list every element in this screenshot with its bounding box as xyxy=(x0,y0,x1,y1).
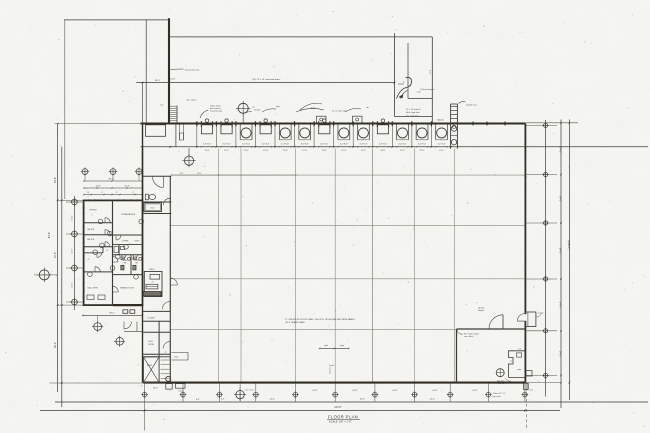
svg-text:LOCKER: LOCKER xyxy=(147,317,155,319)
svg-text:46'-8": 46'-8" xyxy=(54,177,57,183)
svg-text:stoop: stoop xyxy=(174,356,178,359)
svg-text:12'-0": 12'-0" xyxy=(420,150,425,152)
svg-text:bumper: bumper xyxy=(478,310,484,312)
svg-text:ON 4" GRAVEL BASE: ON 4" GRAVEL BASE xyxy=(285,321,305,324)
svg-text:24'-0": 24'-0" xyxy=(558,147,561,153)
svg-text:OFFICE: OFFICE xyxy=(89,210,97,212)
svg-text:conc. block: conc. block xyxy=(464,336,474,338)
svg-text:24'-0": 24'-0" xyxy=(558,351,561,357)
svg-text:233'-8": 233'-8" xyxy=(334,406,342,409)
svg-text:12' clr. door unit: 12' clr. door unit xyxy=(332,110,347,113)
svg-text:BREAK ROOM: BREAK ROOM xyxy=(120,287,134,290)
svg-text:OFFICE: OFFICE xyxy=(87,239,95,241)
svg-text:4'-0" 8'-0": 4'-0" 8'-0" xyxy=(359,143,367,145)
svg-text:8'-0" high smooth: 8'-0" high smooth xyxy=(464,333,479,336)
svg-text:equal: equal xyxy=(340,345,345,347)
svg-text:(1) dock bumper: (1) dock bumper xyxy=(420,89,435,91)
svg-text:12'-0": 12'-0" xyxy=(322,150,327,152)
svg-text:4'-0" 8'-0": 4'-0" 8'-0" xyxy=(398,143,406,145)
svg-text:ROOM: ROOM xyxy=(148,344,154,346)
svg-text:BULL PEN: BULL PEN xyxy=(88,288,98,290)
svg-text:(no. windows): (no. windows) xyxy=(406,115,419,117)
svg-text:16'-4": 16'-4" xyxy=(155,80,161,82)
svg-text:4'-0": 4'-0" xyxy=(530,390,534,392)
svg-text:36'-0": 36'-0" xyxy=(109,312,115,314)
svg-text:4'-0" 8'-0": 4'-0" 8'-0" xyxy=(438,143,446,145)
svg-text:COFFEE: COFFEE xyxy=(122,241,130,243)
svg-text:slope floor: slope floor xyxy=(497,382,505,385)
svg-text:24'-0": 24'-0" xyxy=(312,390,318,392)
svg-text:40'-0": 40'-0" xyxy=(360,399,365,401)
svg-text:36'-0": 36'-0" xyxy=(54,342,57,348)
svg-text:12'-0": 12'-0" xyxy=(283,150,288,152)
svg-text:84'-8": 84'-8" xyxy=(48,232,51,238)
svg-text:12'-0": 12'-0" xyxy=(244,150,249,152)
svg-text:4'-0" 8'-0": 4'-0" 8'-0" xyxy=(223,143,231,145)
svg-text:mezzanine wall: mezzanine wall xyxy=(185,69,200,71)
svg-text:STOR: STOR xyxy=(135,241,140,243)
svg-text:WOM.: WOM. xyxy=(134,260,139,262)
svg-text:12'-6": 12'-6" xyxy=(197,173,202,175)
svg-text:OFFICE: OFFICE xyxy=(87,229,95,231)
svg-text:bldg line: bldg line xyxy=(437,120,444,122)
svg-text:24'-0": 24'-0" xyxy=(432,390,438,392)
svg-text:(13) 12' x 14' overhead doors: (13) 12' x 14' overhead doors xyxy=(252,78,281,81)
svg-text:24'-0": 24'-0" xyxy=(558,248,561,254)
svg-text:18'-0": 18'-0" xyxy=(153,388,158,390)
svg-text:wh: wh xyxy=(151,282,153,284)
svg-text:4'-0" 8'-0": 4'-0" 8'-0" xyxy=(262,143,270,145)
svg-text:conc. apron: conc. apron xyxy=(186,99,196,102)
svg-text:12'-0": 12'-0" xyxy=(302,150,307,152)
svg-text:6" CONCRETE FLOOR SLAB - 3500: 6" CONCRETE FLOOR SLAB - 3500 P.S.I. W/ … xyxy=(285,318,356,321)
svg-text:RAMP: RAMP xyxy=(147,364,153,367)
svg-text:14'-8": 14'-8" xyxy=(95,185,100,187)
svg-text:4'-0" 8'-0": 4'-0" 8'-0" xyxy=(379,143,387,145)
svg-text:14'-6": 14'-6" xyxy=(170,79,176,81)
svg-text:40'-0": 40'-0" xyxy=(430,399,435,401)
svg-text:12'-0": 12'-0" xyxy=(224,150,229,152)
svg-text:ELEC.: ELEC. xyxy=(148,341,154,343)
svg-text:canopy: canopy xyxy=(538,313,544,315)
svg-text:CONFERENCE: CONFERENCE xyxy=(121,214,136,216)
svg-text:shelv: shelv xyxy=(151,208,155,210)
svg-text:12'-0": 12'-0" xyxy=(439,150,444,152)
svg-text:lift dr. type door: lift dr. type door xyxy=(406,111,420,114)
svg-text:40'-0": 40'-0" xyxy=(270,399,275,401)
svg-text:4'-0" 8'-0": 4'-0" 8'-0" xyxy=(320,143,328,145)
svg-text:24'-0": 24'-0" xyxy=(558,302,561,308)
svg-text:comp.: comp. xyxy=(517,369,522,371)
svg-text:CL: CL xyxy=(106,250,108,252)
svg-text:4'-0" 8'-0": 4'-0" 8'-0" xyxy=(340,143,348,145)
svg-text:1'-4": 1'-4" xyxy=(160,105,164,107)
svg-text:24'-0": 24'-0" xyxy=(179,391,184,393)
svg-text:12'-0": 12'-0" xyxy=(72,248,74,253)
svg-text:FLOOR PLAN: FLOOR PLAN xyxy=(328,415,358,420)
svg-text:MENS: MENS xyxy=(122,260,128,262)
svg-text:12'-0": 12'-0" xyxy=(205,150,210,152)
svg-text:24'-0": 24'-0" xyxy=(558,196,561,202)
svg-text:header: header xyxy=(254,110,261,112)
svg-text:12'-0": 12'-0" xyxy=(361,150,366,152)
svg-text:12'-0": 12'-0" xyxy=(400,150,405,152)
svg-text:2'-0" x 4'-0": 2'-0" x 4'-0" xyxy=(245,390,255,392)
svg-text:8'-0": 8'-0" xyxy=(196,399,200,401)
svg-text:12'-0": 12'-0" xyxy=(341,150,346,152)
svg-text:8'-0": 8'-0" xyxy=(221,399,225,401)
svg-text:12'-8": 12'-8" xyxy=(124,185,129,187)
svg-text:24'-0": 24'-0" xyxy=(392,390,398,392)
svg-text:MECH: MECH xyxy=(150,269,156,271)
svg-text:4'-0" 8'-0": 4'-0" 8'-0" xyxy=(242,143,250,145)
svg-text:4'-0": 4'-0" xyxy=(518,349,522,351)
svg-text:(trash) encl.: (trash) encl. xyxy=(466,103,477,106)
svg-text:14'-0": 14'-0" xyxy=(72,215,74,220)
svg-text:up: up xyxy=(165,352,167,354)
svg-text:24'-0": 24'-0" xyxy=(472,390,478,392)
svg-text:4 slab: 4 slab xyxy=(329,365,334,367)
svg-text:(typ): (typ) xyxy=(311,107,315,110)
svg-text:8'-0": 8'-0" xyxy=(180,173,184,175)
svg-text:12'-0": 12'-0" xyxy=(380,150,385,152)
svg-text:12' x 14' vertical: 12' x 14' vertical xyxy=(406,108,421,111)
svg-text:(typ): (typ) xyxy=(276,105,280,108)
svg-text:9'-6": 9'-6" xyxy=(428,70,430,75)
svg-text:CL: CL xyxy=(87,259,89,261)
svg-text:equal: equal xyxy=(324,345,329,347)
svg-text:24'-0": 24'-0" xyxy=(352,390,358,392)
svg-text:(138'-0"): (138'-0") xyxy=(567,240,570,250)
svg-text:(typ.) slab: (typ.) slab xyxy=(493,395,501,398)
svg-text:4'-0" 8'-0": 4'-0" 8'-0" xyxy=(203,143,211,145)
svg-text:masonry partn: masonry partn xyxy=(210,110,222,113)
svg-text:4'-0" 8'-0": 4'-0" 8'-0" xyxy=(281,143,289,145)
svg-text:12'-0": 12'-0" xyxy=(263,150,268,152)
svg-text:SCALE: 1/8" = 1'-0": SCALE: 1/8" = 1'-0" xyxy=(329,419,352,423)
svg-text:14'-0": 14'-0" xyxy=(72,282,74,287)
svg-text:4'-0" 8'-0": 4'-0" 8'-0" xyxy=(301,143,309,145)
svg-text:4'-0" 8'-0": 4'-0" 8'-0" xyxy=(418,143,426,145)
svg-text:24'-0": 24'-0" xyxy=(54,252,57,258)
